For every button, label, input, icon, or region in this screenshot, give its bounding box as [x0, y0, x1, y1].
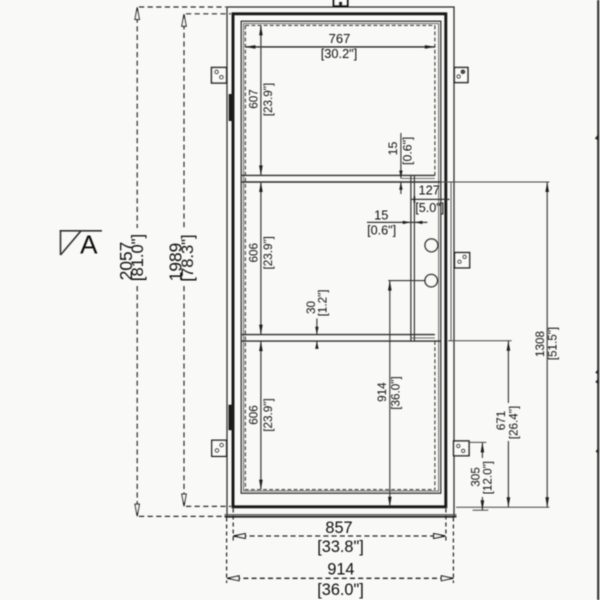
svg-text:15: 15 [374, 207, 388, 222]
handle hole upper circle [425, 239, 438, 252]
dim 606 middle line [260, 182, 262, 335]
lock stile left wall inner line [413, 175, 415, 341]
jamb anchor plate right bottom [454, 441, 469, 456]
svg-text:1308: 1308 [534, 331, 547, 357]
extension line divider2 bottom to right [448, 340, 512, 342]
bottom extension dashed verticals [227, 509, 454, 584]
svg-text:606: 606 [248, 243, 261, 263]
dim 606 bottom line [260, 341, 262, 490]
svg-text:[36.0"]: [36.0"] [317, 581, 364, 599]
dim 914 bottom arrows (open) [227, 576, 453, 581]
dim 914 vertical line [389, 281, 391, 507]
svg-text:[23.9"]: [23.9"] [262, 398, 275, 431]
divider bar 1 top line [241, 174, 435, 176]
dim 1308 line [546, 182, 548, 507]
door frame outer rectangle [227, 7, 454, 517]
svg-text:[1.2"]: [1.2"] [317, 289, 330, 316]
strike stop line on frame [450, 182, 452, 341]
dim 15 horizontal arrows [403, 221, 423, 224]
dim 127 line [411, 198, 450, 200]
edge line tick 3 [595, 379, 598, 385]
svg-text:[23.9"]: [23.9"] [262, 236, 275, 269]
svg-text:A: A [80, 229, 98, 259]
dim 857 dashed line [233, 535, 446, 537]
dim 857 arrows (open) [234, 534, 446, 539]
dim 607 line [260, 25, 262, 175]
dim 767 line [245, 46, 435, 48]
svg-text:[23.9"]: [23.9"] [262, 83, 275, 116]
svg-text:857: 857 [325, 519, 352, 537]
glazing bead inner rectangle [244, 24, 439, 491]
divider bar 1 glass stop stub [401, 177, 435, 179]
dim 914 bottom dashed line [227, 577, 453, 579]
dim 914 vertical leader to handle [388, 280, 425, 282]
frame sill line upper [225, 514, 457, 516]
hinge barrel lower (black) [229, 405, 234, 431]
dim 1989 dashed line [184, 14, 231, 507]
frame sill line lower [225, 516, 457, 518]
svg-text:914: 914 [376, 382, 389, 402]
svg-text:15: 15 [386, 142, 400, 156]
hinge barrel upper (black) [229, 94, 234, 121]
dim 15 vertical arrows [399, 171, 402, 190]
dim 305 arrows [481, 442, 485, 510]
door leaf rectangle (thick) [233, 14, 446, 507]
dim 30 arrows [315, 327, 318, 349]
svg-text:[36.0"]: [36.0"] [390, 376, 403, 409]
dim 767 arrows [245, 45, 435, 49]
divider bar 1 bottom line [241, 181, 441, 183]
dim 671 line [507, 341, 509, 508]
svg-text:[0.6"]: [0.6"] [401, 137, 415, 165]
svg-text:305: 305 [469, 467, 482, 487]
svg-text:[12.0"]: [12.0"] [482, 461, 495, 494]
dim 1308 arrows [545, 182, 549, 507]
dim 30 line [316, 319, 318, 348]
edge line tick 2 [595, 369, 598, 375]
dim 1989 arrows [182, 14, 186, 506]
extension line divider1 bottom to right [441, 181, 550, 183]
dim 606 bottom arrows [259, 341, 263, 490]
svg-text:606: 606 [248, 405, 261, 425]
svg-text:127: 127 [419, 182, 440, 197]
dim 914 vertical arrows [388, 281, 392, 507]
svg-text:[51.5"]: [51.5"] [546, 327, 559, 360]
glass edge dashed rectangle [245, 25, 435, 489]
svg-text:[81.0"]: [81.0"] [129, 234, 147, 281]
jamb anchor plate left top [212, 68, 227, 84]
divider bar 2 bottom line [241, 340, 441, 342]
jamb anchor plate right middle [455, 253, 470, 268]
handle hole lower circle [425, 274, 437, 286]
svg-text:[0.6"]: [0.6"] [367, 223, 396, 237]
dim 15 horizontal line [367, 221, 427, 223]
edge line tick 1 [595, 134, 599, 141]
dim 606 middle arrows [259, 182, 263, 335]
section marker A symbol [60, 230, 102, 255]
svg-text:767: 767 [329, 31, 351, 46]
dim 2057 dashed line [137, 7, 226, 516]
divider bar 2 glass stop stub [411, 337, 435, 339]
top center flush bolt box [334, 0, 348, 6]
svg-text:[78.3"]: [78.3"] [179, 234, 197, 281]
lock stile left wall outer line [410, 175, 412, 341]
svg-text:[30.2"]: [30.2"] [321, 46, 358, 61]
divider bar 2 top line [241, 334, 435, 336]
edge line tick 4 [596, 448, 599, 454]
jamb anchor plate right top [454, 68, 468, 83]
extension line leaf bottom to right [456, 506, 549, 508]
extension line short bottom [473, 509, 489, 511]
svg-text:[26.4"]: [26.4"] [508, 406, 521, 439]
dim 607 arrows [259, 25, 263, 175]
dim 305 line [481, 442, 483, 510]
cropped adjacent view edge line at right [597, 0, 599, 600]
svg-text:914: 914 [327, 561, 354, 579]
jamb anchor plate left bottom [212, 440, 227, 456]
dim 15 vertical line [400, 133, 402, 194]
dim 2057 arrows [135, 7, 139, 516]
glazing bead outer rectangle [241, 21, 441, 493]
svg-text:[5.0"]: [5.0"] [415, 201, 444, 215]
dim 671 arrows [507, 341, 511, 508]
svg-text:671: 671 [495, 411, 508, 431]
extension line plate top [470, 441, 487, 443]
svg-text:607: 607 [248, 89, 261, 109]
svg-text:[33.8"]: [33.8"] [317, 538, 364, 556]
dim 127 end ticks [414, 196, 446, 203]
